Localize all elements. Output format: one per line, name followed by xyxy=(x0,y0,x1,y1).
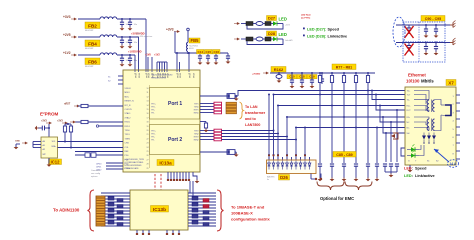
svg-text:C16: C16 xyxy=(213,50,219,54)
wire xyxy=(176,52,178,71)
IC13a top pin numbers xyxy=(134,73,195,78)
ground xyxy=(385,172,397,177)
wire xyxy=(200,95,227,97)
wire port2 pair xyxy=(200,131,214,140)
port 2 block xyxy=(150,125,200,155)
wire xyxy=(188,52,190,71)
LED note heading xyxy=(301,14,312,20)
svg-text:BLM18P: BLM18P xyxy=(85,30,94,32)
annotation arrow xyxy=(434,149,449,162)
svg-text:FB5: FB5 xyxy=(191,38,200,43)
connector header left xyxy=(96,196,105,226)
svg-text:RXP2: RXP2 xyxy=(194,137,199,139)
wire D26 droppers xyxy=(268,94,306,156)
wire to ground xyxy=(193,172,199,183)
svg-text:D28: D28 xyxy=(268,32,275,36)
net label +3V3 xyxy=(63,15,77,20)
annotation brace xyxy=(240,102,244,119)
svg-text:LED: LED xyxy=(279,17,287,22)
wire SCL xyxy=(58,141,124,143)
svg-text:C14: C14 xyxy=(197,50,203,54)
svg-text:TPO+: TPO+ xyxy=(151,104,156,106)
svg-text:RXP1: RXP1 xyxy=(194,110,199,112)
svg-text:LED: LED xyxy=(404,174,412,178)
svg-text:D26: D26 xyxy=(280,175,288,180)
R77-R81 label xyxy=(332,64,356,70)
net label addr xyxy=(15,141,28,145)
wire stub S2 xyxy=(375,94,405,111)
diode array D26 body xyxy=(267,160,317,174)
svg-text:+3V3: +3V3 xyxy=(63,15,71,19)
port pin labels xyxy=(151,104,156,142)
wire port1 pair xyxy=(200,104,214,113)
net label +3V3 xyxy=(166,28,180,33)
capacitors C90-C95 xyxy=(424,24,439,55)
IC13a bottom pin row xyxy=(167,172,190,181)
svg-text:Link/active: Link/active xyxy=(328,35,348,39)
annotation To ADIN1100 xyxy=(53,208,80,213)
svg-text:VD3A: VD3A xyxy=(138,73,141,78)
X7 designator xyxy=(446,80,456,86)
pullup net label xyxy=(57,120,68,125)
X7 internal wires xyxy=(414,91,441,131)
svg-text:LED (D28):: LED (D28): xyxy=(307,35,326,39)
svg-text:TXP1: TXP1 xyxy=(194,104,199,106)
pin xyxy=(187,28,190,31)
ferrite bead FB2 xyxy=(85,17,117,32)
svg-text:RXD1: RXD1 xyxy=(125,126,131,128)
brace left xyxy=(88,190,95,231)
ground xyxy=(206,61,211,65)
svg-text:BLM18P: BLM18P xyxy=(85,48,94,50)
ground xyxy=(198,61,203,65)
resistor R-int xyxy=(81,120,88,123)
D26 designator xyxy=(267,175,290,182)
crossed-out capacitors xyxy=(405,25,414,56)
svg-text:+3V3: +3V3 xyxy=(41,120,47,123)
IC13a bottom text xyxy=(125,159,145,170)
svg-text:TPI+: TPI+ xyxy=(151,110,155,112)
svg-text:+1V2: +1V2 xyxy=(154,54,160,57)
svg-text:+3V3: +3V3 xyxy=(57,120,63,123)
wire xyxy=(200,151,227,153)
annotation config matrix xyxy=(231,205,270,222)
capacitor labels C108-C113 xyxy=(287,75,317,79)
svg-text:BLM18P: BLM18P xyxy=(85,66,94,68)
svg-text:TXEN: TXEN xyxy=(125,138,131,140)
net label +1V2 xyxy=(63,51,77,56)
capacitors C-conn xyxy=(383,164,399,172)
junction xyxy=(121,54,123,56)
svg-text:10/100: 10/100 xyxy=(406,79,420,84)
C85-C89 label xyxy=(333,152,356,158)
svg-text:26: 26 xyxy=(147,155,149,157)
capacitor C-FB4b xyxy=(128,36,138,45)
component Z2 xyxy=(227,150,235,155)
wire port2 w3 xyxy=(222,136,288,138)
svg-text:TPI-: TPI- xyxy=(151,113,155,115)
wire conn corner xyxy=(401,148,405,156)
ground xyxy=(14,144,20,149)
wire bus left xyxy=(101,193,130,226)
ground xyxy=(35,126,39,131)
svg-text:TXN2: TXN2 xyxy=(194,134,199,136)
svg-text:and to: and to xyxy=(245,117,257,121)
svg-text:25: 25 xyxy=(147,151,149,153)
net label +3V3DVDD xyxy=(131,32,145,36)
wire bus L4 xyxy=(296,127,405,129)
svg-text:XTAL1: XTAL1 xyxy=(125,112,132,115)
svg-text:LED: LED xyxy=(404,167,412,171)
termination diodes xyxy=(422,133,436,143)
annotation ellipse xyxy=(393,17,405,47)
wire rail xyxy=(175,52,228,54)
svg-text:Mbit/s: Mbit/s xyxy=(421,79,434,84)
wire xyxy=(147,57,149,71)
svg-text:Comment:: Comment: xyxy=(91,169,101,172)
svg-text:12: 12 xyxy=(147,96,149,98)
net label +3V3 xyxy=(41,120,52,125)
svg-text:CFG0: CFG0 xyxy=(96,164,102,166)
resistor pack left xyxy=(108,197,123,227)
svg-text:RD-: RD- xyxy=(407,117,411,119)
wire droppers xyxy=(319,84,369,163)
wire INT xyxy=(75,121,123,123)
E2PROM title xyxy=(40,112,59,117)
capacitor C-FB6b xyxy=(128,54,138,63)
junction xyxy=(121,18,123,20)
svg-text:17: 17 xyxy=(147,117,149,119)
C90-C95 label xyxy=(421,16,445,22)
svg-text:To LAN: To LAN xyxy=(245,105,258,109)
svg-text:TXD/CLKOUT/GPIO/LED: TXD/CLKOUT/GPIO/LED xyxy=(151,75,173,77)
svg-text:SDA: SDA xyxy=(51,145,56,148)
svg-text::: : xyxy=(412,167,413,171)
Ethernet title xyxy=(406,73,434,84)
ground xyxy=(128,27,133,31)
IC13a internal divider xyxy=(149,85,151,168)
svg-text:options: options xyxy=(91,175,97,178)
IC13b bottom pins xyxy=(136,230,180,235)
svg-text:TPO-: TPO- xyxy=(151,134,156,136)
svg-text:TPI+: TPI+ xyxy=(151,137,155,139)
svg-text:FB2: FB2 xyxy=(88,23,97,28)
svg-text:XTAL2: XTAL2 xyxy=(125,116,132,119)
note text xyxy=(136,32,153,38)
svg-text:0:CONFIG/AUTONEG: 0:CONFIG/AUTONEG xyxy=(125,161,144,164)
svg-text:+1V2DVDD: +1V2DVDD xyxy=(128,50,142,54)
capacitor C18 xyxy=(226,56,230,61)
svg-text:X7: X7 xyxy=(448,80,454,85)
transformer T-A xyxy=(427,100,434,113)
comment text xyxy=(91,169,101,178)
wire rail xyxy=(270,72,375,74)
annotation To LAN transformer xyxy=(245,105,266,127)
choke block xyxy=(441,105,451,116)
svg-text:configuration matrix: configuration matrix xyxy=(231,217,270,222)
X7 internal led wires xyxy=(419,145,424,156)
IC13a left pin labels xyxy=(125,88,149,170)
svg-text:transformer: transformer xyxy=(245,111,266,115)
svg-text:LED: LED xyxy=(279,32,287,37)
svg-text:4x: 4x xyxy=(267,179,269,181)
IC13a top-right text xyxy=(151,75,173,80)
resistor block xyxy=(85,153,96,158)
svg-text:19: 19 xyxy=(147,126,149,128)
transformer T-B xyxy=(427,119,434,132)
svg-text:VD3A: VD3A xyxy=(147,73,150,78)
net label +3V3 rail xyxy=(252,72,269,76)
wire chassis2 xyxy=(396,42,450,44)
capacitor C-eeprom xyxy=(38,126,50,131)
wire bus L3 xyxy=(287,116,405,118)
capacitor C16 xyxy=(213,50,221,62)
svg-text:R77 - R81: R77 - R81 xyxy=(336,65,352,69)
IC13a left top stubs xyxy=(108,76,123,84)
LED circuit D27 xyxy=(234,16,291,30)
svg-text:E²PROM: E²PROM xyxy=(40,112,59,117)
IC13a right pin labels xyxy=(194,104,199,142)
legend LED link xyxy=(404,174,435,178)
wire bus L0 xyxy=(238,91,405,97)
svg-text:Speed: Speed xyxy=(328,28,340,32)
resistors R77-R81 xyxy=(318,72,369,84)
ground xyxy=(234,152,239,157)
wire xyxy=(75,151,123,153)
EMC dashed box xyxy=(403,22,445,62)
ground xyxy=(226,60,231,64)
wire port2 w1 xyxy=(222,130,274,132)
wire chassis1 xyxy=(396,24,450,26)
svg-text:IC12: IC12 xyxy=(51,159,61,164)
svg-text:see config: see config xyxy=(91,173,100,175)
svg-text:PWRDN/CONFIG: PWRDN/CONFIG xyxy=(151,78,167,80)
capacitor C115 xyxy=(320,72,324,84)
net label +2V5 xyxy=(63,33,77,38)
capacitor C-FB6a xyxy=(120,55,131,63)
svg-text:TXN1: TXN1 xyxy=(194,107,199,109)
wire xyxy=(75,154,123,156)
svg-text:16: 16 xyxy=(147,113,149,115)
dots row xyxy=(423,142,434,143)
resistor network R-term1 xyxy=(214,102,222,114)
svg-text:TXD0: TXD0 xyxy=(125,130,131,132)
svg-text:RXD0: RXD0 xyxy=(125,122,131,124)
legend link xyxy=(303,35,347,39)
capacitor C14 xyxy=(197,50,205,62)
chassis arrow xyxy=(391,133,398,139)
svg-text:TPO+: TPO+ xyxy=(151,131,156,133)
svg-text:+2V5: +2V5 xyxy=(63,33,71,37)
wire stub S3 xyxy=(379,105,405,123)
annotation ellipse 2 xyxy=(448,160,459,168)
svg-text:21: 21 xyxy=(147,134,149,136)
wire +1V2 feed xyxy=(134,55,136,71)
svg-text:LED Note: LED Note xyxy=(301,14,312,17)
svg-text:GND: GND xyxy=(15,141,20,143)
wire xyxy=(78,54,135,56)
svg-text:IC13b: IC13b xyxy=(153,207,166,213)
svg-text:MDC: MDC xyxy=(125,96,130,98)
svg-text:Optional for EMC: Optional for EMC xyxy=(320,196,354,201)
ground xyxy=(128,63,133,67)
IC U-IC13b body xyxy=(130,190,188,230)
svg-text:Speed: Speed xyxy=(415,167,427,171)
svg-text:R162: R162 xyxy=(274,67,284,72)
svg-text:IC13a: IC13a xyxy=(159,160,172,165)
svg-text:RESET_N: RESET_N xyxy=(125,101,135,103)
svg-text:TPO-: TPO- xyxy=(151,107,156,109)
svg-text:LAN7800: LAN7800 xyxy=(245,123,260,127)
port 1 block xyxy=(150,88,200,120)
capacitor C-FB4a xyxy=(120,37,131,45)
ferrite bead FB6 xyxy=(85,53,117,68)
capacitor C-FB2b xyxy=(128,18,138,27)
svg-text:28: 28 xyxy=(147,164,149,166)
wire NC xyxy=(96,125,123,127)
ground xyxy=(277,79,282,83)
svg-text:15: 15 xyxy=(147,109,149,111)
wire group xyxy=(157,62,167,71)
svg-text:(to PHY):: (to PHY): xyxy=(301,17,311,20)
ferrite bead FB4 xyxy=(85,35,117,50)
brace right xyxy=(217,190,224,231)
LED B xyxy=(407,150,419,157)
svg-text:Port 2: Port 2 xyxy=(168,137,182,143)
svg-text:+1V2: +1V2 xyxy=(63,51,71,55)
svg-text:Ethernet: Ethernet xyxy=(408,73,426,78)
IC13b designator xyxy=(151,206,169,213)
svg-text:TXP2: TXP2 xyxy=(194,131,199,133)
svg-text:nRST: nRST xyxy=(64,103,71,106)
svg-text:LED1/LED2/SPEED: LED1/LED2/SPEED xyxy=(125,165,143,167)
svg-text::: : xyxy=(412,174,413,178)
svg-text:C15: C15 xyxy=(205,50,211,54)
svg-text:CRS: CRS xyxy=(125,143,130,145)
wire bus right xyxy=(188,193,216,226)
transformer T1 windings xyxy=(226,102,237,114)
svg-text:18: 18 xyxy=(147,122,149,124)
svg-text:VD3A: VD3A xyxy=(192,73,195,78)
chassis grounds xyxy=(450,21,456,46)
annotation optional for EMC xyxy=(320,196,354,201)
ground xyxy=(128,45,133,49)
net label nRST xyxy=(64,103,80,108)
legend LED speed xyxy=(404,167,427,171)
svg-text:13: 13 xyxy=(147,101,149,103)
svg-text:VD3A: VD3A xyxy=(179,73,182,78)
IC12 ground xyxy=(47,158,52,167)
svg-text:Port 1: Port 1 xyxy=(168,101,182,107)
IC13a top pin text xyxy=(134,74,189,76)
IC12 designator xyxy=(49,159,62,165)
resistor R-rst xyxy=(78,104,123,107)
LED A xyxy=(407,144,419,151)
ground xyxy=(120,45,125,49)
svg-text:FB6: FB6 xyxy=(88,59,97,64)
ground xyxy=(234,95,239,101)
wire xyxy=(179,62,181,71)
svg-text:+1V8: +1V8 xyxy=(145,54,151,57)
IC U-IC13a body xyxy=(123,70,200,172)
connector X7 body xyxy=(405,87,456,165)
IC13a designator xyxy=(157,160,174,166)
wire conn caps xyxy=(385,109,398,162)
wire bus L1 xyxy=(274,94,406,96)
wire xyxy=(227,53,229,56)
net label VDD xyxy=(145,54,160,57)
wire port2 w4 xyxy=(222,139,297,141)
svg-text:+3V3ED: +3V3ED xyxy=(252,74,261,76)
svg-text:COMA/ISOLATE: COMA/ISOLATE xyxy=(125,167,140,170)
wire stub S4 xyxy=(382,116,405,133)
wire SDA xyxy=(58,147,124,149)
wire xyxy=(78,36,139,38)
diode array pins xyxy=(268,154,310,160)
ground xyxy=(214,61,219,65)
svg-text:24: 24 xyxy=(147,147,149,149)
svg-text:VD3A: VD3A xyxy=(134,73,137,78)
ground xyxy=(120,63,125,67)
svg-text:29: 29 xyxy=(147,168,149,170)
IC12 left pins xyxy=(33,142,41,148)
wire xyxy=(78,18,146,20)
svg-text:To 10BASE-T and: To 10BASE-T and xyxy=(231,205,265,210)
LED circuit D28 xyxy=(234,31,293,45)
svg-text:To ADIN1100: To ADIN1100 xyxy=(53,208,80,213)
X7 bottom pin texts xyxy=(408,161,439,163)
resistor pack right xyxy=(192,197,209,227)
svg-text:11: 11 xyxy=(147,92,149,94)
wire xyxy=(175,31,188,53)
IC13a top pin stubs xyxy=(135,70,189,72)
svg-text:VD3A: VD3A xyxy=(188,73,191,78)
svg-text:10: 10 xyxy=(147,88,149,90)
capacitors C85-C89 xyxy=(318,164,371,181)
net label INT xyxy=(70,121,76,123)
capacitor C-extra xyxy=(375,127,380,182)
wire xyxy=(151,57,153,71)
svg-text:Link-A/D: Link-A/D xyxy=(285,39,293,42)
svg-text:Link/active: Link/active xyxy=(415,174,435,178)
svg-text:27: 27 xyxy=(147,159,149,161)
svg-text:+3V3: +3V3 xyxy=(166,28,174,32)
svg-text:Note:: Note: xyxy=(136,32,142,35)
svg-text:100BASE-X: 100BASE-X xyxy=(231,211,253,216)
wire stub S1 xyxy=(371,90,405,100)
svg-text:INT_N: INT_N xyxy=(125,105,131,107)
svg-text:1:DUPLEX/LED_TXRX: 1:DUPLEX/LED_TXRX xyxy=(125,159,145,161)
resistor R-scl xyxy=(65,123,73,148)
svg-text:C90 - C95: C90 - C95 xyxy=(425,17,441,21)
svg-text:FB4: FB4 xyxy=(88,41,97,46)
svg-text:LED (D27):: LED (D27): xyxy=(307,28,326,32)
svg-text:TPI-: TPI- xyxy=(151,140,155,142)
svg-text:C85 - C89: C85 - C89 xyxy=(336,153,352,157)
capacitors C108 C112 C113 xyxy=(290,72,315,88)
svg-text:RXN2: RXN2 xyxy=(194,140,199,142)
wire +3V3 feed xyxy=(145,19,147,71)
wire stubs xyxy=(96,163,123,172)
svg-text:see FB selection: see FB selection xyxy=(136,35,153,38)
resistor network R-term2 xyxy=(214,129,222,141)
svg-text:TD-: TD- xyxy=(407,100,411,102)
wire dashed to IC13b xyxy=(155,174,161,190)
wire bus right verticals xyxy=(190,181,193,196)
ground xyxy=(120,27,125,31)
svg-text:23: 23 xyxy=(147,143,149,145)
wire bus L2 xyxy=(278,105,405,107)
